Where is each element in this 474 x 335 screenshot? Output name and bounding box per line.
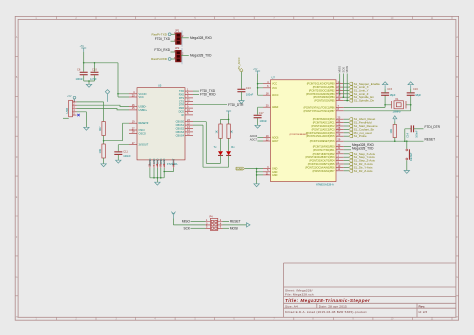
capacitor C13 xyxy=(237,89,245,92)
svg-text:VCC: VCC xyxy=(139,96,144,99)
connector USB body xyxy=(69,100,73,117)
U7 pin 22 ADC7 xyxy=(263,140,271,142)
svg-text:(PCINT5/SCK)PB5: (PCINT5/SCK)PB5 xyxy=(314,100,335,103)
svg-text:TEST: TEST xyxy=(173,158,176,165)
border division ticks vertical xyxy=(15,56,458,295)
U5 pin 18 GND xyxy=(156,160,158,168)
svg-text:Mega328_RXD: Mega328_RXD xyxy=(190,36,212,40)
wire +5V rail to FT232 VCC xyxy=(84,52,129,97)
svg-text:JP2: JP2 xyxy=(175,47,180,50)
svg-text:H: H xyxy=(16,316,18,319)
svg-text:FTDI_DTR: FTDI_DTR xyxy=(425,125,441,129)
svg-text:ADC7: ADC7 xyxy=(272,140,279,143)
ground (C13) xyxy=(239,101,244,104)
svg-text:ADC7: ADC7 xyxy=(250,137,258,141)
crystal X1 xyxy=(385,104,411,106)
svg-text:USBD+: USBD+ xyxy=(139,109,148,112)
svg-text:SCK: SCK xyxy=(183,226,190,230)
U7 pin 19 ADC6 xyxy=(263,137,271,139)
wire ISP RESET xyxy=(223,221,230,223)
jumper JP2 body xyxy=(176,50,182,62)
power flag PWR_FLAG (VBUS) xyxy=(105,90,109,102)
wire U5 ground bus xyxy=(150,168,174,182)
ground (C17) xyxy=(255,125,260,128)
ic U7 ATMEGA328 body xyxy=(271,80,337,182)
U5 pin 25 AGND xyxy=(149,160,151,168)
wire RESET net xyxy=(344,140,424,142)
wire pin 17 to label S1_Limit_Z xyxy=(344,93,349,95)
U7 pin 21 GND xyxy=(263,174,271,176)
svg-text:16MHz: 16MHz xyxy=(393,110,402,114)
svg-text:CBUS4: CBUS4 xyxy=(176,134,185,137)
U7 pin 11 PD7 xyxy=(336,170,344,172)
hierarchical label S1_Step_Y-Axis xyxy=(349,156,353,159)
svg-text:S1_Spindle_Dir: S1_Spindle_Dir xyxy=(354,99,374,103)
U5 pin 16 USBD- xyxy=(129,106,137,108)
svg-text:1K: 1K xyxy=(230,130,234,133)
ISP pin stubs xyxy=(206,222,223,229)
svg-text:C15: C15 xyxy=(387,87,392,91)
wire JP2 pin2 to Mega328_TXD xyxy=(181,54,189,56)
wire TXD xyxy=(193,90,199,92)
svg-text:+5V: +5V xyxy=(80,45,85,48)
capacitor C11 xyxy=(114,152,122,155)
USB pin numbers xyxy=(73,99,75,115)
svg-text:G: G xyxy=(456,276,458,279)
U5 pin 13 CBUS2 xyxy=(185,128,193,130)
wire pin 27 to label Pin_not_used xyxy=(344,132,349,134)
svg-text:C11: C11 xyxy=(123,150,128,154)
svg-text:U7: U7 xyxy=(272,76,276,80)
svg-text:3V3OUT: 3V3OUT xyxy=(139,144,149,147)
U5 pin 1 TXD xyxy=(185,90,193,92)
svg-text:C14: C14 xyxy=(405,132,409,137)
hierarchical label S1_Abort_Reset xyxy=(349,118,353,121)
border division ticks horizontal xyxy=(57,16,453,320)
junction VCCIO tap xyxy=(117,93,119,95)
capacitor C6 xyxy=(83,63,85,81)
wire +5V to VCC pins xyxy=(258,74,263,95)
wire 3V3OUT to C11 xyxy=(118,145,129,161)
svg-text:100nF: 100nF xyxy=(76,77,84,81)
hierarchical label S1_Probe xyxy=(349,135,353,138)
svg-text:RESET: RESET xyxy=(409,152,413,161)
wire SCK vertical xyxy=(342,74,344,98)
svg-text:(PCINT17/TXD)PD1: (PCINT17/TXD)PD1 xyxy=(313,149,335,152)
ground (divider) xyxy=(101,164,106,167)
junction RESET switch xyxy=(406,140,408,142)
wire divider to RESET# xyxy=(104,123,129,141)
U5 pin 2 DTR xyxy=(185,104,193,106)
svg-text:(PCINT23/AIN1)PD7: (PCINT23/AIN1)PD7 xyxy=(312,170,335,173)
svg-text:MOSI: MOSI xyxy=(345,66,349,73)
U7 pin 1 PD3 xyxy=(336,156,344,158)
wire pin 23 to label S1_Abort_Reset xyxy=(344,118,349,120)
U5 pin 28 OSCO xyxy=(129,132,137,134)
svg-text:+5V: +5V xyxy=(67,95,72,98)
U5 pin 15 USBD+ xyxy=(129,109,137,111)
svg-text:10K: 10K xyxy=(98,149,102,154)
svg-text:SCK: SCK xyxy=(341,67,345,73)
svg-text:Rev:: Rev: xyxy=(419,304,426,308)
wire LED rail xyxy=(221,114,229,124)
wire R6 to LED Tx xyxy=(220,138,222,151)
capacitor C10 xyxy=(94,63,96,81)
hierarchical label Pin_not_used xyxy=(349,131,353,134)
wire R4 to R5 junction xyxy=(103,136,105,145)
junction ground bus 3 xyxy=(160,177,162,179)
hierarchical label S1_Dir_Y-Axis xyxy=(349,166,353,169)
U5 pin 4 VCCIO xyxy=(129,93,137,95)
wire USB D+ to FT232 xyxy=(77,109,130,110)
svg-text:C13: C13 xyxy=(246,86,251,90)
hierarchical label S1_Dir_Z-Axis xyxy=(349,169,353,172)
U7 pin 18 PB4 xyxy=(336,96,344,98)
capacitor C14 xyxy=(411,125,413,132)
svg-text:RESET#: RESET# xyxy=(139,122,149,125)
wire pin 32 to label S1_Step_X-Axis xyxy=(344,153,349,155)
U5 pin 12 CBUS4 xyxy=(185,134,193,136)
hierarchical label S1_Spindle_Dir xyxy=(349,99,353,102)
junction caps ground xyxy=(88,80,90,82)
svg-text:(PCINT13/SCL/ADC5)PC5: (PCINT13/SCL/ADC5)PC5 xyxy=(306,135,335,138)
jumper JP1 body xyxy=(176,33,182,45)
U7 pin 16 PB2 xyxy=(336,89,344,91)
svg-text:C: C xyxy=(16,116,18,119)
wire MISO to ISP xyxy=(191,221,206,223)
svg-text:MISO: MISO xyxy=(182,220,191,224)
junction crystal left xyxy=(384,104,386,106)
U7 pin 28 PC5 xyxy=(336,135,344,137)
wire USB GND xyxy=(77,112,87,128)
wire pin 30 to label Mega328_RXD xyxy=(344,145,351,147)
title block frame xyxy=(284,263,456,317)
no-connect USB shield xyxy=(77,114,79,116)
ground (ISP, horizontal) xyxy=(247,223,251,227)
svg-text:OSCO: OSCO xyxy=(139,132,146,135)
wire AREF to C17 xyxy=(258,107,263,125)
wire JP1 pin2 to Mega328_RXD xyxy=(181,37,189,39)
svg-text:RESET: RESET xyxy=(230,220,241,224)
U7 pin 6 VCC xyxy=(263,87,271,89)
hierarchical label S1_Limit_X xyxy=(349,86,353,89)
U7 pin 29 PC6 xyxy=(336,140,344,142)
U7 pin 26 PC3 xyxy=(336,128,344,130)
svg-text:C17: C17 xyxy=(259,111,264,115)
U7 pin 5 GND xyxy=(263,171,271,173)
svg-text:H: H xyxy=(456,316,458,319)
U5 pin 7 GND xyxy=(153,160,155,168)
wire pin 28 to label S1_Probe xyxy=(344,135,349,137)
wire +5V to ISP pin 2col xyxy=(173,219,205,225)
power symbol +5V (USB VBUS) xyxy=(73,96,76,99)
U7 pin 4 VCC xyxy=(263,83,271,85)
svg-text:C10: C10 xyxy=(92,68,97,72)
wire RasPi-TXD to JP1 pin1 xyxy=(171,33,176,35)
svg-text:FTDI_TXD: FTDI_TXD xyxy=(155,37,171,41)
svg-text:VCC: VCC xyxy=(272,83,277,86)
hierarchical label S1_Dir_X-Axis xyxy=(349,163,353,166)
svg-text:RasPi-RXD: RasPi-RXD xyxy=(151,57,168,61)
U5 pin 3 RTS xyxy=(185,97,193,99)
wire pin 10 to label S1_Dir_Y-Axis xyxy=(344,166,349,168)
resistor R4 xyxy=(102,122,105,136)
U5 pin 21 GND xyxy=(160,160,162,168)
wire R3 xyxy=(394,122,396,142)
svg-text:FTDI_RXD: FTDI_RXD xyxy=(154,48,170,52)
U7 pin 19 PB5 xyxy=(336,100,344,102)
junction RESET cap xyxy=(404,140,406,142)
resistor R7 xyxy=(227,124,230,138)
svg-text:S1_Probe: S1_Probe xyxy=(354,134,367,138)
LED D1 Tx xyxy=(218,151,223,155)
U7 pin 23 PC0 xyxy=(336,118,344,120)
U7 pin 9 PD5 xyxy=(336,163,344,165)
junction SCK xyxy=(343,96,345,98)
junction MISO xyxy=(339,93,341,95)
junction LED rail xyxy=(228,119,230,121)
U7 pin 3 GND xyxy=(263,168,271,170)
capacitor C16 xyxy=(407,93,415,95)
wire C13 to ground xyxy=(240,92,242,101)
wire pin 15 to label S1_Limit_X xyxy=(344,86,349,88)
svg-text:C6: C6 xyxy=(77,68,81,72)
wire pin 26 to label S1_Coolant_En xyxy=(344,128,349,130)
svg-text:100nF: 100nF xyxy=(123,154,131,158)
ground (USB) xyxy=(84,127,89,130)
svg-text:FTDI_RXD: FTDI_RXD xyxy=(200,93,216,97)
svg-text:D: D xyxy=(456,156,458,159)
U5 pin 17 3V3OUT xyxy=(129,144,137,146)
LED D2 Rx xyxy=(226,151,231,155)
svg-text:10K: 10K xyxy=(389,129,393,134)
switch SW1 reset button xyxy=(406,141,408,170)
U5 pin 11 CTS xyxy=(185,100,193,102)
wire pin 2 to label S1_Step_Z-Axis xyxy=(344,160,349,162)
svg-text:+5V: +5V xyxy=(253,68,258,71)
wire pin 11 to label S1_Dir_Z-Axis xyxy=(344,170,349,172)
U7 pin 10 PD6 xyxy=(336,166,344,168)
junction ground bus 1 xyxy=(153,177,155,179)
svg-text:Title: Mega328-Trinamic-Steppe: Title: Mega328-Trinamic-Stepper xyxy=(285,298,371,303)
svg-text:1K: 1K xyxy=(215,130,219,133)
hierarchical label S1_Limit_Y xyxy=(349,89,353,92)
wire CBUS1 to LED Rx xyxy=(193,125,229,167)
wire pin 18 to label S1_Spindle_En xyxy=(344,96,349,98)
U7 pin 27 PC4 xyxy=(336,132,344,134)
svg-text:18pF: 18pF xyxy=(390,93,396,97)
U7 pin 18 AVCC xyxy=(263,94,271,96)
U5 pin 26 TEST xyxy=(173,160,175,168)
svg-text:Mega328_TXD: Mega328_TXD xyxy=(190,54,212,58)
U5 pin 14 CBUS3 xyxy=(185,131,193,133)
U5 pin 26 GND xyxy=(163,160,165,168)
U7 pin 7 PB6 xyxy=(336,106,344,108)
wire C14 left xyxy=(405,129,411,141)
ground up (C15) xyxy=(384,85,386,88)
ic U5 FT232RL body xyxy=(137,88,185,160)
wire XTAL1 net xyxy=(344,95,385,107)
svg-text:AVCC: AVCC xyxy=(272,94,279,97)
ISP header pads xyxy=(211,220,217,229)
junction MOSI xyxy=(346,100,348,102)
svg-text:Date: 28 apr 2015: Date: 28 apr 2015 xyxy=(319,304,347,308)
connector P4 ISP body xyxy=(210,218,217,230)
junction ground bus 2 xyxy=(157,177,159,179)
power symbol +5V (mega VCC) xyxy=(255,71,260,74)
hierarchical label S1_FeedHold xyxy=(349,121,353,124)
svg-text:Mega328_TXD: Mega328_TXD xyxy=(352,146,374,150)
svg-text:JP1: JP1 xyxy=(175,30,180,33)
svg-text:RI: RI xyxy=(182,114,185,117)
ground (U5) xyxy=(155,182,160,185)
U5 pin 22 CBUS1 xyxy=(185,124,193,126)
ground (decoupling caps) xyxy=(86,84,91,87)
svg-text:File: Mega328.sch: File: Mega328.sch xyxy=(285,293,314,297)
hierarchical label S1_Start_Resume xyxy=(349,125,353,128)
svg-text:S1_Dir_Z-Axis: S1_Dir_Z-Axis xyxy=(354,169,373,173)
resistor R3 xyxy=(393,125,396,138)
svg-text:4.7uF: 4.7uF xyxy=(90,77,97,81)
U5 pin 6 RI xyxy=(185,114,193,116)
junction VCC 1 xyxy=(257,83,259,85)
svg-text:Size: A4: Size: A4 xyxy=(285,304,298,308)
global label RasPi-RXD xyxy=(168,58,171,61)
svg-text:+5V_AVCC: +5V_AVCC xyxy=(237,57,241,70)
svg-text:GND: GND xyxy=(237,167,245,171)
wire pin 1 to label S1_Step_Y-Axis xyxy=(344,156,349,158)
ground (C11) xyxy=(116,160,121,163)
U5 pin 10 DCD xyxy=(185,111,193,113)
U5 pin 27 OSCI xyxy=(129,129,137,131)
U7 pin 30 PD0 xyxy=(336,145,344,147)
junction VCC 2 xyxy=(257,87,259,89)
wire CBUS0 to LED Tx xyxy=(193,122,221,164)
hierarchical label S1_Spindle_En xyxy=(349,96,353,99)
svg-text:100nF: 100nF xyxy=(260,119,268,123)
global label RasPi-TXD xyxy=(168,33,171,36)
svg-text:GND: GND xyxy=(272,174,278,177)
hierarchical label S1_Stepper_Enable xyxy=(349,82,353,85)
junction +5V rail cap C10 xyxy=(94,62,96,64)
U7 pin 8 PB7 xyxy=(336,110,344,112)
ground (SW1) xyxy=(404,171,409,174)
wire USB D- to FT232 xyxy=(77,105,130,106)
U7 pin 25 PC2 xyxy=(336,125,344,127)
svg-text:4K7: 4K7 xyxy=(98,126,102,131)
wire ADC7 xyxy=(257,140,263,142)
U7 pin 32 PD2 xyxy=(336,153,344,155)
resistor R6 xyxy=(219,124,222,138)
wire RasPi-RXD to JP2 pin3 xyxy=(171,58,176,60)
wire pin 16 to label S1_Limit_Y xyxy=(344,89,349,91)
wire pin 24 to label S1_FeedHold xyxy=(344,122,349,124)
wire ISP MOSI xyxy=(223,227,230,229)
wire RXD xyxy=(193,94,199,96)
hierarchical label S1_Coolant_En xyxy=(349,128,353,131)
ground up (C16) xyxy=(410,85,412,88)
wire C14 right to FTDI_DTR xyxy=(414,128,424,130)
power symbol +5V (top left rail) xyxy=(81,48,86,52)
wire USB VBUS xyxy=(77,102,104,122)
svg-text:D: D xyxy=(16,156,18,159)
wire pin 14 to label S1_Stepper_Enable xyxy=(344,83,349,85)
wire GND label to pins xyxy=(245,169,263,184)
svg-text:MISO: MISO xyxy=(338,66,342,73)
wire MOSI vertical xyxy=(346,74,348,101)
wire USB shell stub xyxy=(63,117,69,119)
svg-text:C16: C16 xyxy=(413,87,418,91)
USB pins xyxy=(73,102,77,115)
svg-text:(PCINT7/XTAL2/TOSC2)PB7: (PCINT7/XTAL2/TOSC2)PB7 xyxy=(304,110,336,113)
wire XTAL2 net xyxy=(344,95,411,111)
power symbol +5V (LED rail) xyxy=(226,111,231,114)
U5 pin 20 VCC xyxy=(129,96,137,98)
U5 pin 5 RXD xyxy=(185,94,193,96)
power symbol +5V (ISP) xyxy=(171,212,175,219)
svg-text:100nF: 100nF xyxy=(246,93,254,97)
wire caps to ground xyxy=(84,81,95,84)
svg-text:VCC: VCC xyxy=(272,87,277,90)
capacitor C17 xyxy=(254,115,262,117)
wire ISP GND xyxy=(223,224,247,226)
wire pin 19 to label S1_Spindle_Dir xyxy=(344,100,349,102)
hierarchical label S1_Step_X-Axis xyxy=(349,152,353,155)
wire ADC6 xyxy=(257,137,263,139)
capacitor C15 xyxy=(381,93,389,95)
wire +5V_AVCC to C13 xyxy=(240,72,242,89)
wire R5 to ground xyxy=(103,158,105,164)
svg-text:18pF: 18pF xyxy=(415,93,421,97)
svg-text:(PCINT14/RESET)PC6: (PCINT14/RESET)PC6 xyxy=(310,140,335,143)
U7 pin 24 PC1 xyxy=(336,122,344,124)
U5 pin 23 CBUS0 xyxy=(185,121,193,123)
U5 pin 9 DSR xyxy=(185,107,193,109)
svg-text:MOSI: MOSI xyxy=(230,226,238,230)
wire FTDI_RXD to JP2 pin1 xyxy=(171,51,176,53)
svg-text:U5: U5 xyxy=(158,84,162,88)
junction +5V rail cap C6 xyxy=(83,62,85,64)
wire DTR xyxy=(193,104,227,106)
ground (mega) xyxy=(254,184,259,187)
U7 pin 20 AREF xyxy=(263,106,271,108)
wire FTDI_TXD to JP1 pin3 xyxy=(171,40,176,42)
junction GND 2 xyxy=(256,171,258,173)
junction RESET R3 xyxy=(394,140,396,142)
junction ground bus 4 xyxy=(163,171,165,173)
wire pin 25 to label S1_Start_Resume xyxy=(344,125,349,127)
global label GND xyxy=(236,167,245,170)
svg-text:USB: USB xyxy=(65,108,69,114)
wire R7 to LED Rx xyxy=(228,138,230,151)
wire pin 31 to label Mega328_TXD xyxy=(344,149,351,151)
junction GND 1 xyxy=(256,168,258,170)
junction GND 3 xyxy=(256,174,258,176)
resistor R5 xyxy=(102,144,105,158)
wire MISO vertical xyxy=(339,74,341,94)
U7 pin 15 PB1 xyxy=(336,86,344,88)
U7 pin 14 PB0 xyxy=(336,83,344,85)
hierarchical label S1_Limit_Z xyxy=(349,92,353,95)
svg-text:GND: GND xyxy=(163,158,166,164)
U7 pin 17 PB3 xyxy=(336,93,344,95)
svg-text:G: G xyxy=(16,276,18,279)
svg-text:RESET: RESET xyxy=(425,138,436,142)
U7 pin 31 PD1 xyxy=(336,149,344,151)
wire SCK to ISP xyxy=(191,227,206,229)
U5 pin 19 RESET# xyxy=(129,122,137,124)
svg-text:KiCad E.D.A. kicad (2015-03-0: KiCad E.D.A. kicad (2015-03-08 BZR 5365)… xyxy=(285,310,367,314)
